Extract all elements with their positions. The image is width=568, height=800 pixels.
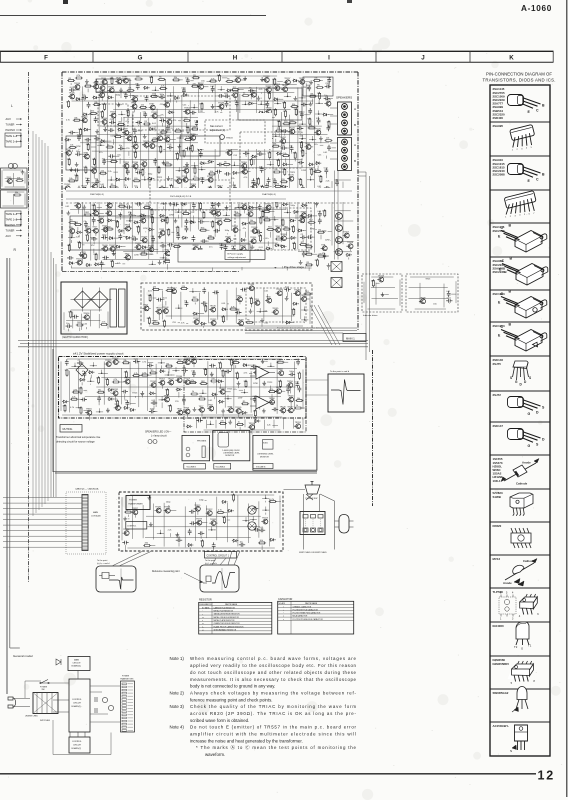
- wire stub: [266, 294, 268, 299]
- wire stub: [448, 302, 450, 305]
- wire stub: [350, 249, 352, 251]
- svg-text:4.7k: 4.7k: [315, 169, 319, 171]
- resistor R330: [208, 173, 216, 175]
- capacitor C737: [446, 299, 452, 303]
- wire stub: [232, 80, 237, 82]
- svg-text:TR269: TR269: [238, 319, 245, 321]
- wire stub: [153, 128, 156, 130]
- node junction: [93, 365, 95, 367]
- resistor R477: [262, 210, 264, 218]
- wire stub: [131, 228, 133, 230]
- wire stub: [318, 117, 320, 121]
- wire stub: [249, 372, 252, 374]
- capacitor C261: [281, 146, 287, 150]
- svg-text:TR503: TR503: [192, 245, 199, 247]
- resistor R121: [101, 110, 103, 118]
- wire stub: [220, 112, 222, 114]
- svg-text:1k: 1k: [186, 127, 188, 129]
- svg-text:measurements. It is also n: measurements. It is also necessary to ch…: [190, 677, 357, 682]
- capacitor C335: [260, 166, 264, 172]
- wire: [84, 200, 317, 202]
- capacitor C441: [192, 202, 196, 208]
- resistor R172: [289, 122, 297, 124]
- pin connection table frame: [490, 85, 550, 756]
- node junction: [261, 129, 263, 131]
- svg-text:1k: 1k: [281, 220, 283, 222]
- indicator driver box: [362, 274, 402, 312]
- capacitor C376: [100, 185, 106, 189]
- transistor TR494: [141, 218, 146, 223]
- resistor R337: [284, 168, 286, 176]
- band divider 0: [0, 51, 2, 62]
- node junction: [90, 380, 92, 382]
- svg-text:VOLUME A: VOLUME A: [216, 466, 226, 469]
- ground: [319, 136, 323, 140]
- resistor R407: [141, 193, 143, 201]
- svg-text:10k: 10k: [68, 312, 71, 314]
- resistor R651: [274, 260, 276, 268]
- node junction: [226, 215, 228, 217]
- wire: [408, 297, 448, 299]
- transistor TR473: [216, 211, 221, 216]
- capacitor C197: [251, 125, 255, 131]
- transistor TR149: [102, 120, 107, 125]
- svg-text:10u: 10u: [123, 93, 126, 95]
- relay driver box: [406, 274, 458, 312]
- diode D631: [68, 262, 74, 265]
- svg-text:1k: 1k: [107, 144, 109, 146]
- transistor TR447: [242, 205, 247, 210]
- svg-text:TR303: TR303: [190, 184, 197, 186]
- capacitor C551: [118, 234, 122, 240]
- wire: [78, 242, 278, 244]
- svg-text:2SA726(B,LF): 2SA726(B,LF): [262, 193, 276, 196]
- svg-text:TR459: TR459: [140, 217, 147, 219]
- ground: [210, 372, 214, 376]
- svg-text:TR368: TR368: [300, 211, 307, 213]
- wire stub: [75, 89, 80, 91]
- capacitor C557: [176, 233, 180, 239]
- svg-text:PHONO: PHONO: [6, 128, 16, 132]
- capacitor C462: [129, 212, 133, 218]
- wire stub: [284, 134, 286, 136]
- ground: [309, 102, 313, 106]
- svg-text:4.7k: 4.7k: [272, 79, 276, 81]
- transistor TR218: [158, 136, 163, 141]
- svg-text:S: S: [510, 376, 512, 380]
- wire: [233, 360, 235, 410]
- node junction: [193, 107, 195, 109]
- svg-text:1/2W: 1/2W: [169, 214, 174, 216]
- svg-text:Anode: Anode: [503, 581, 512, 585]
- svg-text:4.7k: 4.7k: [79, 388, 83, 390]
- capacitor C439: [172, 202, 178, 206]
- wire stub: [137, 130, 142, 132]
- ground: [260, 136, 264, 140]
- wire: [115, 94, 117, 259]
- svg-text:TR226: TR226: [91, 182, 98, 184]
- wire stub: [183, 206, 185, 208]
- transistor TR194: [215, 127, 220, 132]
- diode D333: [232, 171, 238, 174]
- diode D552: [125, 236, 131, 239]
- diode D521: [118, 229, 124, 232]
- wire stub: [77, 316, 79, 318]
- svg-text:10k: 10k: [306, 244, 309, 246]
- diode D581: [141, 246, 147, 249]
- diode D496: [160, 219, 166, 222]
- transistor TR405: [123, 195, 128, 200]
- wire stub: [128, 151, 130, 155]
- transistor TR646: [231, 260, 236, 265]
- transistor TR582: [149, 247, 154, 252]
- wire stub: [129, 132, 131, 134]
- diode D186: [149, 128, 155, 131]
- resistor R5: [67, 80, 75, 82]
- diode D395: [282, 185, 288, 188]
- transistor TR554: [142, 238, 147, 243]
- power transistor TO-3P package: [515, 231, 542, 253]
- wire stub: [286, 147, 289, 149]
- svg-text:10k: 10k: [250, 220, 253, 222]
- svg-text:TR600: TR600: [86, 409, 93, 411]
- wire stub: [102, 91, 104, 95]
- wire: [72, 100, 314, 102]
- svg-text:47u: 47u: [160, 115, 163, 117]
- resistor R370: [320, 175, 322, 183]
- wire stub: [325, 156, 327, 159]
- transistor TR565: [251, 239, 256, 244]
- svg-text:PIN-CONNECTION DIAGRAM OF: PIN-CONNECTION DIAGRAM OF: [486, 72, 552, 77]
- capacitor C644: [209, 263, 215, 267]
- amplifier stage box 2: [133, 96, 230, 130]
- svg-text:1k: 1k: [111, 159, 113, 161]
- wire stub: [120, 93, 122, 99]
- capacitor C177: [69, 131, 75, 135]
- svg-text:47u: 47u: [209, 247, 212, 249]
- resistor R629: [317, 255, 325, 257]
- svg-text:33k: 33k: [174, 77, 177, 79]
- svg-text:TR279: TR279: [141, 236, 148, 238]
- resistor R344: [76, 174, 78, 182]
- amplifier stage box 4: [303, 77, 333, 96]
- svg-text:4.7k: 4.7k: [198, 203, 202, 205]
- svg-text:10k: 10k: [210, 171, 213, 173]
- svg-text:1k: 1k: [83, 167, 85, 169]
- capacitor C257: [240, 142, 244, 148]
- svg-text:10k: 10k: [69, 178, 72, 180]
- resistor R299: [164, 164, 172, 166]
- wire stub: [114, 121, 116, 123]
- wire stub: [200, 209, 202, 212]
- svg-text:CONTROL: CONTROL: [127, 526, 136, 528]
- wire stub: [121, 209, 123, 211]
- wire: [107, 312, 109, 329]
- resistor R323: [142, 168, 144, 176]
- svg-text:TAPE 1+2: TAPE 1+2: [6, 218, 18, 222]
- svg-text:TR427: TR427: [91, 167, 98, 169]
- svg-text:33k: 33k: [244, 381, 247, 383]
- svg-text:4.7k: 4.7k: [100, 112, 104, 114]
- transistor TR222: [191, 135, 196, 140]
- svg-text:waveform.: waveform.: [205, 752, 225, 757]
- svg-text:10k: 10k: [70, 145, 73, 147]
- wire stub: [220, 126, 222, 129]
- wire stub: [189, 213, 191, 215]
- wire stub: [22, 173, 24, 176]
- wire stub: [277, 81, 283, 83]
- capacitor C166: [243, 120, 249, 124]
- svg-text:47u: 47u: [82, 371, 85, 373]
- diode D466: [159, 214, 165, 217]
- capacitor C203: [297, 127, 303, 131]
- transistor TR414: [211, 195, 216, 200]
- speaker return wires down: [335, 171, 339, 260]
- resistor R506: [248, 222, 256, 224]
- transistor TR391: [252, 184, 257, 189]
- resistor R790: [112, 381, 120, 383]
- diode D596: [275, 244, 281, 247]
- wire stub: [145, 220, 148, 222]
- wire: [363, 282, 365, 303]
- wire stub: [241, 79, 246, 81]
- wire: [291, 293, 293, 321]
- wire: [342, 182, 344, 245]
- resistor R433: [118, 205, 126, 207]
- diode D63: [75, 98, 81, 101]
- wire stub: [286, 300, 288, 302]
- wire stub: [147, 179, 151, 181]
- capacitor C443: [211, 202, 215, 208]
- transistor 2SA995 SIP package: [510, 124, 535, 140]
- wire: [272, 79, 274, 259]
- wire stub: [222, 77, 227, 79]
- capacitor C364: [267, 177, 271, 183]
- resistor R291: [93, 158, 95, 166]
- node junction: [243, 137, 245, 139]
- transistor TR30: [300, 79, 305, 84]
- svg-text:o: o: [283, 616, 284, 618]
- transistor TR37: [94, 84, 99, 89]
- transistor TR743: [113, 360, 118, 365]
- wire stub: [100, 263, 106, 265]
- wire stub: [219, 225, 221, 231]
- wire stub: [260, 222, 262, 225]
- node junction: [260, 104, 262, 106]
- wire stub: [313, 215, 317, 217]
- capacitor C531: [214, 229, 220, 233]
- wire stub: [81, 98, 86, 100]
- ground: [381, 292, 385, 296]
- svg-text:33k: 33k: [282, 169, 285, 171]
- capacitor C153: [136, 121, 142, 125]
- resistor R16: [172, 79, 180, 81]
- svg-text:TR292: TR292: [112, 389, 119, 391]
- resistor R684: [304, 293, 312, 295]
- capacitor C444: [217, 201, 221, 207]
- diode D314: [315, 162, 321, 165]
- transistor TR694: [255, 301, 260, 306]
- wire stub: [261, 323, 263, 327]
- wire stub: [270, 232, 272, 238]
- resistor R308: [251, 158, 253, 166]
- svg-text:TR530: TR530: [149, 142, 156, 144]
- capacitor C49: [211, 86, 215, 92]
- wire stub: [105, 232, 107, 233]
- wire stub: [213, 189, 217, 191]
- svg-text:TR185: TR185: [272, 308, 279, 310]
- wire stub: [307, 87, 310, 89]
- svg-text:B: B: [354, 159, 356, 163]
- resistor R237: [325, 140, 333, 142]
- capacitor C630: [323, 253, 327, 259]
- amplifier stage box 7: [150, 180, 230, 210]
- wire stub: [328, 114, 333, 116]
- svg-text:VOLUME B: VOLUME B: [187, 467, 197, 469]
- wire stub: [146, 253, 152, 255]
- diode D505: [242, 222, 248, 225]
- wire: [198, 83, 200, 230]
- diode D179: [83, 128, 89, 131]
- svg-text:1k: 1k: [85, 235, 87, 237]
- resistor R685: [149, 294, 151, 302]
- wire: [336, 200, 351, 202]
- capacitor C589: [220, 243, 224, 249]
- wire: [263, 288, 265, 321]
- transistor TR519: [103, 227, 108, 232]
- svg-text:47u: 47u: [99, 152, 102, 154]
- transistor TR56: [275, 86, 280, 91]
- capacitor C249: [167, 146, 173, 150]
- transistor group TO-92 package: [508, 95, 524, 106]
- resistor R458: [84, 214, 92, 216]
- svg-text:TR378: TR378: [196, 519, 203, 521]
- wire: [96, 386, 295, 388]
- svg-text:TR101: TR101: [164, 101, 171, 103]
- transistor TR538: [276, 228, 281, 233]
- wire stub: [68, 155, 70, 157]
- svg-text:33k: 33k: [105, 379, 108, 381]
- capacitor C61: [325, 84, 331, 88]
- svg-text:* The marks Ⓐ to Ⓒ mean: * The marks Ⓐ to Ⓒ mean the test points …: [196, 744, 357, 751]
- wire: [302, 370, 304, 410]
- wire stub: [81, 382, 83, 385]
- transistor TR247: [150, 144, 155, 149]
- wire: [208, 292, 210, 323]
- transistor TR592: [241, 247, 246, 252]
- capacitor C678: [240, 288, 246, 292]
- resistor R663: [70, 310, 72, 318]
- capacitor C69: [124, 93, 128, 99]
- resistor R170: [278, 120, 280, 128]
- diode D283: [276, 152, 282, 155]
- resistor R469: [182, 213, 190, 215]
- svg-text:33k: 33k: [292, 243, 295, 245]
- wire stub: [318, 124, 320, 125]
- svg-text:TR565: TR565: [288, 396, 295, 398]
- resistor R161: [196, 120, 204, 122]
- diode D648: [252, 262, 258, 265]
- resistor R451: [276, 200, 278, 208]
- diode D558: [182, 236, 188, 239]
- resistor R200: [275, 130, 283, 132]
- svg-text:CAPACITOR: CAPACITOR: [278, 598, 293, 601]
- svg-text:10u: 10u: [289, 145, 292, 147]
- node junction: [302, 123, 304, 125]
- svg-text:TR333: TR333: [247, 210, 254, 212]
- resistor R18: [192, 77, 200, 79]
- ground: [185, 162, 189, 166]
- wire stub: [96, 112, 98, 114]
- wire stub: [128, 95, 134, 97]
- wire stub: [157, 95, 162, 97]
- svg-text:Do not touch E (emitter) of: Do not touch E (emitter) of TR557 in the…: [190, 725, 357, 730]
- wire stub: [303, 230, 307, 232]
- capacitor C424: [301, 194, 307, 198]
- svg-text:10k: 10k: [309, 125, 312, 127]
- wire stub: [257, 365, 261, 367]
- transistor TR622: [256, 251, 261, 256]
- wire stub: [328, 106, 330, 107]
- wire stub: [120, 104, 123, 106]
- wire stub: [211, 268, 213, 272]
- svg-text:TR355: TR355: [190, 134, 197, 136]
- wire stub: [305, 152, 306, 154]
- wire stub: [145, 147, 147, 148]
- wire stub: [118, 381, 124, 383]
- resistor R610: [140, 253, 148, 255]
- ground: [268, 251, 272, 255]
- node junction: [293, 198, 295, 200]
- svg-text:POWER SW: POWER SW: [306, 498, 318, 500]
- svg-text:1k: 1k: [126, 110, 128, 112]
- wire stub: [193, 364, 195, 367]
- wire: [63, 312, 65, 330]
- capacitor C413: [193, 196, 197, 202]
- wire: [66, 320, 100, 322]
- transistor TR503: [217, 220, 222, 225]
- svg-text:MONITOR: MONITOR: [225, 455, 235, 457]
- wire: [171, 287, 173, 320]
- wire: [180, 292, 182, 321]
- wire stub: [287, 292, 289, 297]
- speaker terminal A3: [342, 120, 348, 126]
- bus wire 6: [47, 146, 49, 501]
- svg-text:1/2W: 1/2W: [310, 229, 315, 231]
- wire: [332, 189, 352, 191]
- svg-text:TR227: TR227: [325, 100, 332, 102]
- wire: [70, 209, 286, 211]
- wire stub: [278, 133, 280, 137]
- wire stub: [182, 170, 185, 172]
- capacitor C587: [199, 246, 203, 252]
- wire stub: [246, 248, 247, 250]
- resistor R507: [260, 216, 262, 224]
- svg-text:TR475: TR475: [148, 245, 155, 247]
- svg-text:CONTROL: CONTROL: [72, 741, 83, 743]
- resistor R52: [231, 89, 239, 91]
- node junction: [209, 128, 211, 130]
- wire stub: [154, 248, 158, 250]
- resistor R527: [168, 228, 170, 236]
- transistor TR577: [103, 246, 108, 251]
- pin table divider 7: [490, 321, 550, 323]
- wire stub: [149, 190, 154, 192]
- wire: [156, 109, 158, 255]
- resistor R471: [203, 211, 205, 219]
- resistor R27: [274, 78, 276, 86]
- svg-text:4.7k: 4.7k: [70, 407, 74, 409]
